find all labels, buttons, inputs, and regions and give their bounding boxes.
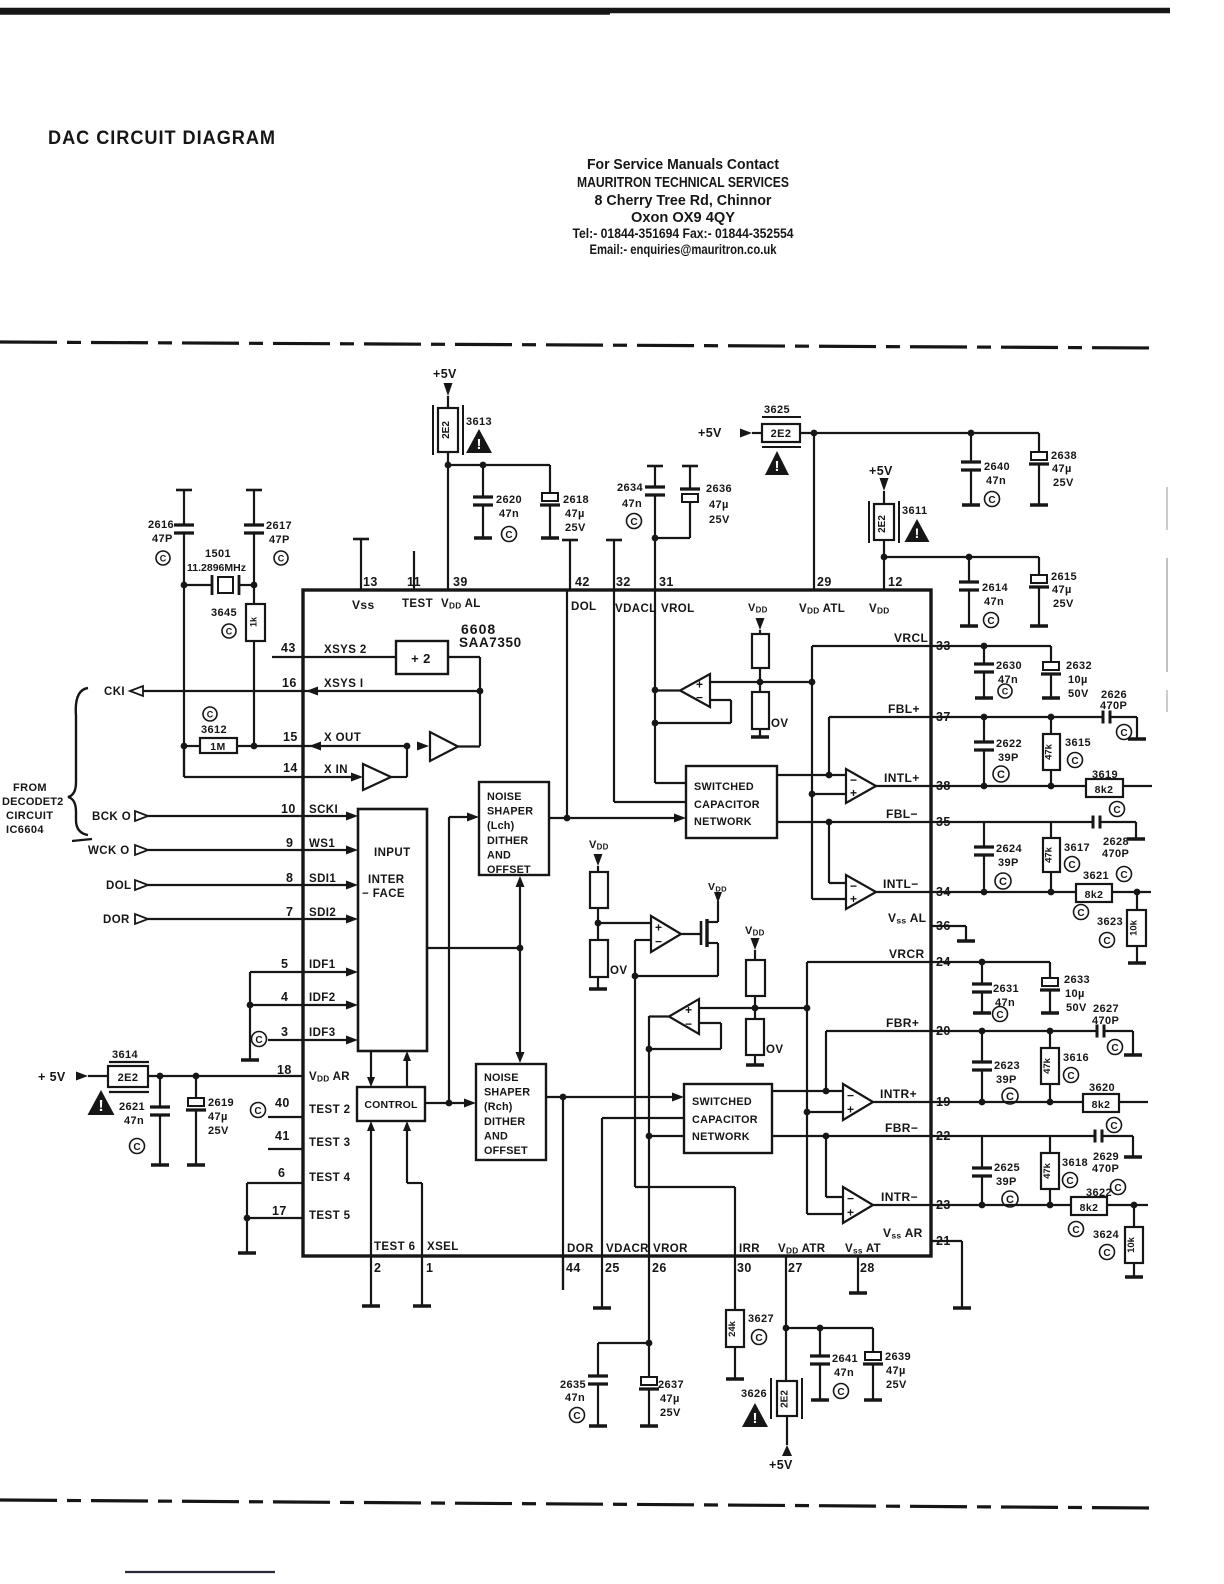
svg-text:Vss AR: Vss AR [883, 1226, 923, 1241]
svg-text:2637: 2637 [658, 1379, 684, 1391]
svg-text:2627: 2627 [1093, 1003, 1119, 1015]
svg-text:39P: 39P [998, 857, 1019, 869]
svg-text:X IN: X IN [324, 764, 348, 776]
svg-text:TEST 5: TEST 5 [309, 1210, 351, 1222]
svg-text:−: − [696, 690, 703, 704]
svg-text:+5V: +5V [698, 426, 722, 440]
svg-text:C: C [1111, 1043, 1118, 1054]
svg-text:VROR: VROR [653, 1243, 688, 1255]
svg-text:32: 32 [616, 575, 631, 589]
svg-text:C: C [1120, 870, 1127, 881]
svg-text:2632: 2632 [1066, 660, 1092, 672]
svg-text:2629: 2629 [1093, 1151, 1119, 1163]
svg-text:47k: 47k [1044, 846, 1055, 863]
svg-text:25: 25 [605, 1261, 620, 1275]
svg-text:8 Cherry Tree Rd, Chinnor: 8 Cherry Tree Rd, Chinnor [595, 193, 772, 209]
svg-text:!: ! [477, 436, 482, 453]
svg-text:IRR: IRR [739, 1243, 760, 1255]
svg-text:10k: 10k [1126, 1236, 1137, 1253]
svg-text:7: 7 [286, 905, 293, 919]
svg-text:2628: 2628 [1103, 836, 1129, 848]
svg-text:47µ: 47µ [660, 1393, 680, 1405]
svg-text:28: 28 [860, 1261, 875, 1275]
svg-text:OFFSET: OFFSET [487, 864, 531, 876]
svg-text:2624: 2624 [996, 843, 1023, 855]
svg-text:+: + [850, 892, 857, 906]
svg-text:2E2: 2E2 [780, 1390, 791, 1408]
svg-text:VRCR: VRCR [889, 947, 925, 961]
svg-text:XSYS 2: XSYS 2 [324, 644, 367, 656]
svg-text:30: 30 [737, 1261, 752, 1275]
svg-text:FBL−: FBL− [886, 807, 918, 821]
svg-text:!: ! [915, 525, 920, 541]
svg-text:CIRCUIT: CIRCUIT [6, 810, 53, 822]
svg-text:47µ: 47µ [1052, 584, 1072, 596]
svg-text:−: − [655, 934, 662, 948]
svg-text:IDF3: IDF3 [309, 1027, 336, 1039]
svg-text:47n: 47n [124, 1115, 144, 1127]
svg-text:C: C [987, 616, 994, 627]
svg-text:3615: 3615 [1065, 737, 1091, 749]
svg-text:C: C [226, 627, 233, 637]
svg-text:47µ: 47µ [565, 508, 585, 520]
svg-text:470P: 470P [1102, 848, 1129, 860]
svg-text:SHAPER: SHAPER [484, 1087, 530, 1099]
svg-text:2622: 2622 [996, 738, 1022, 750]
svg-text:43: 43 [281, 641, 296, 655]
svg-text:C: C [1006, 1194, 1014, 1206]
svg-text:OV: OV [610, 965, 627, 977]
svg-text:INTL−: INTL− [883, 877, 919, 891]
svg-text:8k2: 8k2 [1095, 784, 1114, 796]
svg-text:9: 9 [286, 836, 293, 850]
svg-text:Email:- enquiries@mauritron.co: Email:- enquiries@mauritron.co.uk [590, 242, 777, 257]
svg-text:2633: 2633 [1064, 974, 1090, 986]
svg-text:2E2: 2E2 [877, 515, 888, 533]
svg-text:25V: 25V [208, 1125, 229, 1137]
svg-text:VDACL: VDACL [615, 603, 657, 615]
svg-text:!: ! [753, 1410, 758, 1427]
svg-text:BCK O: BCK O [92, 811, 131, 823]
svg-text:FBL+: FBL+ [888, 702, 920, 716]
svg-text:13: 13 [363, 575, 378, 589]
svg-text:2615: 2615 [1051, 571, 1077, 583]
svg-text:2640: 2640 [984, 461, 1010, 473]
svg-text:+: + [847, 1205, 854, 1219]
svg-text:−: − [685, 1017, 692, 1031]
svg-text:VDD AR: VDD AR [309, 1071, 350, 1084]
svg-text:INTL+: INTL+ [884, 771, 920, 785]
svg-text:2614: 2614 [982, 582, 1009, 594]
svg-text:OV: OV [771, 718, 788, 730]
svg-text:!: ! [775, 458, 780, 475]
svg-text:C: C [1103, 936, 1110, 947]
svg-text:FBR−: FBR− [885, 1121, 918, 1135]
svg-text:− FACE: − FACE [362, 888, 405, 900]
svg-text:3620: 3620 [1089, 1082, 1115, 1094]
svg-text:2621: 2621 [119, 1101, 145, 1113]
svg-text:DECODET2: DECODET2 [2, 796, 64, 808]
svg-text:10k: 10k [1129, 919, 1140, 936]
svg-text:AND: AND [487, 849, 511, 861]
svg-text:C: C [1071, 756, 1078, 767]
svg-text:47µ: 47µ [208, 1111, 228, 1123]
svg-text:VDD ATR: VDD ATR [778, 1243, 826, 1256]
svg-text:SAA7350: SAA7350 [459, 635, 522, 650]
svg-text:INTER: INTER [368, 874, 405, 886]
svg-text:DAC CIRCUIT DIAGRAM: DAC CIRCUIT DIAGRAM [48, 128, 276, 149]
svg-text:−: − [847, 1089, 854, 1103]
svg-text:470P: 470P [1092, 1015, 1119, 1027]
svg-text:47n: 47n [986, 475, 1006, 487]
svg-text:3627: 3627 [748, 1313, 774, 1325]
svg-text:C: C [207, 710, 214, 720]
svg-text:3624: 3624 [1093, 1229, 1120, 1241]
svg-text:10µ: 10µ [1065, 988, 1085, 1000]
svg-text:1501: 1501 [205, 548, 231, 560]
svg-text:VDACR: VDACR [606, 1243, 649, 1255]
svg-text:IDF2: IDF2 [309, 992, 336, 1004]
svg-text:47k: 47k [1044, 743, 1055, 760]
svg-text:+5V: +5V [769, 1458, 793, 1472]
svg-text:C: C [1072, 1225, 1079, 1236]
svg-text:C: C [1120, 728, 1127, 739]
svg-text:C: C [988, 495, 995, 506]
svg-text:XSEL: XSEL [427, 1241, 459, 1253]
svg-text:6: 6 [278, 1166, 285, 1180]
svg-text:X OUT: X OUT [324, 732, 361, 744]
svg-text:39P: 39P [996, 1176, 1017, 1188]
svg-text:8: 8 [286, 871, 293, 885]
svg-text:OFFSET: OFFSET [484, 1145, 528, 1157]
svg-text:2618: 2618 [563, 494, 589, 506]
svg-text:470P: 470P [1092, 1163, 1119, 1175]
svg-text:11.2896MHz: 11.2896MHz [187, 562, 246, 574]
svg-text:CONTROL: CONTROL [364, 1099, 418, 1111]
svg-text:1: 1 [426, 1261, 433, 1275]
svg-text:OV: OV [766, 1044, 783, 1056]
svg-text:27: 27 [788, 1261, 803, 1275]
svg-text:2E2: 2E2 [771, 428, 792, 440]
svg-text:DOL: DOL [106, 880, 131, 892]
svg-text:2E2: 2E2 [118, 1072, 139, 1084]
svg-text:SHAPER: SHAPER [487, 806, 533, 818]
svg-text:47n: 47n [834, 1367, 854, 1379]
svg-text:NETWORK: NETWORK [692, 1131, 750, 1143]
svg-text:3: 3 [281, 1025, 288, 1039]
svg-text:41: 41 [275, 1129, 290, 1143]
svg-text:IC6604: IC6604 [6, 824, 44, 836]
svg-text:SWITCHED: SWITCHED [692, 1096, 752, 1108]
svg-text:DOR: DOR [103, 914, 130, 926]
svg-text:39P: 39P [998, 752, 1019, 764]
svg-text:AND: AND [484, 1130, 508, 1142]
svg-text:3621: 3621 [1083, 870, 1109, 882]
svg-text:C: C [1002, 687, 1009, 697]
svg-text:14: 14 [283, 761, 298, 775]
svg-text:C: C [1067, 1071, 1074, 1082]
svg-text:For Service Manuals Contact: For Service Manuals Contact [587, 157, 779, 173]
svg-text:−: − [847, 1192, 854, 1206]
svg-text:XSYS I: XSYS I [324, 678, 363, 690]
svg-text:3617: 3617 [1064, 842, 1090, 854]
svg-text:40: 40 [275, 1096, 290, 1110]
svg-text:8k2: 8k2 [1085, 889, 1104, 901]
svg-text:TEST 3: TEST 3 [309, 1137, 350, 1149]
svg-text:2630: 2630 [996, 660, 1022, 672]
svg-text:25V: 25V [565, 522, 586, 534]
svg-text:Oxon OX9 4QY: Oxon OX9 4QY [631, 210, 735, 226]
svg-text:CKI: CKI [104, 686, 125, 698]
svg-text:4: 4 [281, 990, 288, 1004]
svg-text:FBR+: FBR+ [886, 1016, 919, 1030]
svg-text:C: C [278, 554, 285, 564]
svg-text:47µ: 47µ [1052, 463, 1072, 475]
svg-text:8k2: 8k2 [1080, 1202, 1099, 1214]
svg-text:TEST 6: TEST 6 [374, 1241, 415, 1253]
svg-text:3611: 3611 [902, 505, 927, 517]
svg-text:C: C [755, 1333, 762, 1344]
svg-text:2E2: 2E2 [441, 421, 452, 439]
svg-text:17: 17 [272, 1204, 287, 1218]
svg-text:VDD ATL: VDD ATL [799, 603, 845, 616]
svg-text:DOL: DOL [571, 601, 596, 613]
svg-text:470P: 470P [1100, 700, 1127, 712]
svg-text:39P: 39P [996, 1074, 1017, 1086]
svg-text:15: 15 [283, 730, 298, 744]
svg-text:2636: 2636 [706, 483, 732, 495]
svg-text:C: C [1077, 908, 1084, 919]
svg-text:47k: 47k [1042, 1162, 1053, 1179]
svg-text:(Rch): (Rch) [484, 1101, 513, 1113]
svg-text:DOR: DOR [567, 1243, 594, 1255]
svg-text:2631: 2631 [993, 983, 1019, 995]
svg-text:3614: 3614 [112, 1049, 139, 1061]
svg-text:NOISE: NOISE [487, 791, 522, 803]
svg-text:C: C [996, 1010, 1003, 1021]
svg-text:3616: 3616 [1063, 1052, 1089, 1064]
svg-text:SCKI: SCKI [309, 804, 338, 816]
svg-text:44: 44 [566, 1261, 581, 1275]
svg-text:2619: 2619 [208, 1097, 234, 1109]
svg-text:+ 2: + 2 [411, 651, 431, 666]
svg-text:C: C [1110, 1121, 1117, 1132]
svg-text:SDI2: SDI2 [309, 907, 336, 919]
svg-text:WS1: WS1 [309, 838, 335, 850]
svg-text:TEST 4: TEST 4 [309, 1172, 351, 1184]
svg-text:1M: 1M [210, 741, 225, 753]
svg-text:SDI1: SDI1 [309, 873, 336, 885]
svg-text:47µ: 47µ [709, 499, 729, 511]
svg-text:2623: 2623 [994, 1060, 1020, 1072]
svg-text:C: C [133, 1142, 140, 1153]
svg-text:2639: 2639 [885, 1351, 911, 1363]
svg-text:C: C [254, 1106, 261, 1117]
svg-text:3626: 3626 [741, 1388, 767, 1400]
svg-text:3625: 3625 [764, 404, 790, 416]
svg-text:Vss AL: Vss AL [888, 911, 926, 926]
svg-text:TEST: TEST [402, 598, 433, 610]
svg-text:C: C [997, 769, 1005, 781]
svg-text:47n: 47n [565, 1392, 585, 1404]
svg-text:2620: 2620 [496, 494, 522, 506]
svg-text:47µ: 47µ [886, 1365, 906, 1377]
svg-text:DITHER: DITHER [484, 1116, 525, 1128]
svg-text:2: 2 [374, 1261, 381, 1275]
svg-text:25V: 25V [1053, 477, 1074, 489]
svg-text:CAPACITOR: CAPACITOR [694, 799, 760, 811]
svg-text:C: C [505, 530, 512, 541]
svg-text:NOISE: NOISE [484, 1072, 519, 1084]
svg-text:C: C [630, 517, 637, 528]
svg-text:2617: 2617 [266, 520, 292, 532]
svg-text:29: 29 [817, 575, 832, 589]
svg-text:C: C [1113, 805, 1120, 816]
svg-text:25V: 25V [660, 1407, 681, 1419]
svg-text:TEST 2: TEST 2 [309, 1104, 350, 1116]
svg-text:10: 10 [281, 802, 296, 816]
svg-text:C: C [573, 1411, 580, 1422]
svg-text:+5V: +5V [433, 367, 457, 381]
svg-text:42: 42 [575, 575, 590, 589]
svg-text:MAURITRON TECHNICAL SERVICES: MAURITRON TECHNICAL SERVICES [577, 175, 789, 191]
svg-text:FROM: FROM [13, 782, 47, 794]
svg-text:C: C [1006, 1091, 1014, 1103]
svg-text:3645: 3645 [211, 607, 237, 619]
svg-text:INPUT: INPUT [374, 847, 411, 859]
svg-text:+: + [850, 786, 857, 800]
svg-text:INTR−: INTR− [881, 1190, 918, 1204]
svg-text:DITHER: DITHER [487, 835, 528, 847]
svg-text:25V: 25V [709, 514, 730, 526]
svg-text:Tel:- 01844-351694 Fax:- 01844: Tel:- 01844-351694 Fax:- 01844-352554 [573, 226, 794, 241]
svg-text:VDD AL: VDD AL [441, 598, 481, 611]
svg-text:2635: 2635 [560, 1379, 586, 1391]
svg-text:5: 5 [281, 957, 288, 971]
svg-text:INTR+: INTR+ [880, 1087, 917, 1101]
svg-text:47k: 47k [1042, 1057, 1053, 1074]
svg-text:39: 39 [453, 575, 468, 589]
svg-text:10µ: 10µ [1068, 674, 1088, 686]
svg-text:26: 26 [652, 1261, 667, 1275]
svg-text:−: − [850, 879, 857, 893]
svg-text:3623: 3623 [1097, 916, 1123, 928]
svg-text:3612: 3612 [201, 724, 227, 736]
svg-text:VROL: VROL [661, 603, 695, 615]
svg-text:C: C [1068, 860, 1075, 871]
svg-text:47n: 47n [622, 498, 642, 510]
svg-text:25V: 25V [1053, 598, 1074, 610]
svg-text:1k: 1k [249, 616, 259, 627]
svg-text:24k: 24k [727, 1320, 738, 1337]
svg-text:+5V: +5V [869, 464, 893, 478]
svg-text:3613: 3613 [466, 416, 492, 428]
svg-text:+: + [655, 921, 662, 935]
svg-text:3618: 3618 [1062, 1157, 1088, 1169]
svg-text:−: − [850, 773, 857, 787]
svg-text:+: + [685, 1003, 692, 1017]
svg-text:IDF1: IDF1 [309, 959, 336, 971]
svg-text:2625: 2625 [994, 1162, 1020, 1174]
svg-text:47n: 47n [984, 596, 1004, 608]
svg-text:47P: 47P [269, 534, 290, 546]
svg-text:Vss: Vss [352, 598, 375, 612]
svg-text:C: C [837, 1387, 844, 1398]
svg-text:(Lch): (Lch) [487, 820, 515, 832]
svg-text:VRCL: VRCL [894, 631, 928, 645]
svg-text:C: C [255, 1035, 262, 1046]
svg-text:2641: 2641 [832, 1353, 858, 1365]
svg-text:47P: 47P [152, 533, 173, 545]
svg-text:CAPACITOR: CAPACITOR [692, 1114, 758, 1126]
svg-text:2634: 2634 [617, 482, 644, 494]
svg-text:50V: 50V [1066, 1002, 1087, 1014]
svg-text:2638: 2638 [1051, 450, 1077, 462]
svg-text:12: 12 [888, 575, 903, 589]
svg-text:WCK O: WCK O [88, 845, 130, 857]
svg-text:50V: 50V [1068, 688, 1089, 700]
svg-text:C: C [1103, 1248, 1110, 1259]
svg-text:Vss AT: Vss AT [845, 1243, 881, 1256]
svg-text:31: 31 [659, 575, 674, 589]
svg-text:+: + [847, 1102, 854, 1116]
svg-text:2616: 2616 [148, 519, 174, 531]
svg-text:VDD: VDD [869, 603, 890, 616]
svg-text:C: C [1114, 1183, 1121, 1194]
svg-text:NETWORK: NETWORK [694, 816, 752, 828]
svg-text:8k2: 8k2 [1092, 1099, 1111, 1111]
svg-text:+ 5V: + 5V [38, 1070, 66, 1084]
svg-text:47n: 47n [499, 508, 519, 520]
svg-text:C: C [160, 554, 167, 564]
svg-text:SWITCHED: SWITCHED [694, 781, 754, 793]
svg-text:C: C [999, 876, 1007, 888]
svg-text:C: C [1066, 1176, 1073, 1187]
svg-text:!: ! [98, 1098, 103, 1115]
svg-text:25V: 25V [886, 1379, 907, 1391]
svg-text:16: 16 [282, 676, 297, 690]
